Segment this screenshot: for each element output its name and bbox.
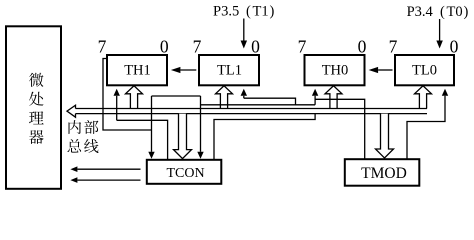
svg-text:7: 7 (298, 37, 307, 57)
arrow TCON to CPU upper (70, 166, 140, 172)
arrow bus to TCON (hollow) (174, 114, 192, 159)
arrow bus to TL1 (hollow) (216, 86, 233, 109)
block TMOD (345, 159, 420, 186)
label 内部总线 (68, 120, 99, 153)
label 0 TH0 (358, 37, 367, 57)
arrow TF1 into TCON (148, 96, 154, 159)
label fullwidth (T0) (440, 4, 469, 20)
block TCON (147, 160, 222, 184)
label 7 TH1 (98, 37, 107, 57)
arrow bus to TH0 (hollow) (325, 86, 342, 109)
svg-text:TMOD: TMOD (361, 165, 407, 182)
label 微处理器 (vertical) (29, 73, 44, 144)
wire TCON left feed (117, 120, 168, 160)
wire internal bus 内部总线 (hollow arrow to CPU) (67, 105, 427, 117)
block TL0 (395, 55, 454, 85)
svg-text:P3.5: P3.5 (213, 4, 239, 20)
arrow control to TH1 (114, 89, 120, 121)
svg-text:0: 0 (358, 37, 367, 57)
svg-text:): ) (270, 4, 275, 20)
svg-text:7: 7 (98, 37, 107, 57)
svg-text:7: 7 (193, 37, 202, 57)
arrow bus to TH1 (hollow) (126, 86, 143, 109)
svg-text:TL0: TL0 (412, 62, 437, 78)
label 7 TL1 (193, 37, 202, 57)
label 0 TH1 (160, 37, 169, 57)
wire control line step (152, 95, 201, 97)
label TCON (166, 166, 204, 181)
arrow control to TH0 (312, 89, 318, 105)
label 0 TL1 (251, 37, 260, 57)
label P3.4 (T0) (407, 4, 434, 20)
wire TF1 line from TH1 (103, 59, 152, 131)
svg-text:0: 0 (251, 37, 260, 57)
svg-text:T1: T1 (253, 4, 269, 20)
svg-text:TH0: TH0 (322, 62, 349, 78)
svg-text:): ) (464, 4, 469, 20)
label TL1 (217, 62, 242, 78)
wire TCON right feed (214, 114, 315, 160)
svg-text:0: 0 (160, 37, 169, 57)
label TH1 (124, 62, 151, 78)
wire control line right (201, 104, 316, 106)
arrow control to TL1 (241, 89, 247, 98)
arrow TL1 to TH1 (171, 67, 196, 73)
svg-text:T0: T0 (447, 4, 463, 20)
label fullwidth (T1) (246, 4, 275, 20)
svg-text:P3.4: P3.4 (407, 4, 434, 20)
label 0 TL0 (450, 37, 459, 57)
svg-text:TH1: TH1 (124, 62, 151, 78)
arrow bus to TMOD (hollow) (376, 114, 394, 158)
arrow bus to TL0 (hollow) (415, 86, 432, 109)
arrow P3.4 input to TL0 (436, 19, 443, 49)
label 7 TH0 (298, 37, 307, 57)
svg-text:TL1: TL1 (217, 62, 242, 78)
svg-text:7: 7 (389, 37, 398, 57)
arrow TMOD to TL0 (407, 89, 448, 159)
label P3.5 (T1) (213, 4, 239, 20)
arrow P3.5 input to TL1 (241, 19, 248, 49)
label 7 TL0 (389, 37, 398, 57)
arrow TL0 to TH0 (369, 67, 393, 73)
arrow line to TCON b (197, 96, 203, 159)
block TH0 (305, 55, 365, 85)
block TH1 (107, 55, 167, 85)
svg-text:TCON: TCON (166, 166, 204, 181)
block TL1 (199, 55, 259, 85)
wire TMOD control line (315, 99, 365, 159)
block CPU 微处理器 (6, 26, 61, 189)
svg-text:(: ( (440, 4, 445, 20)
svg-text:0: 0 (450, 37, 459, 57)
wire control link TL1 (244, 98, 296, 105)
label TH0 (322, 62, 349, 78)
label TMOD (361, 165, 407, 182)
label TL0 (412, 62, 437, 78)
arrow TCON to CPU lower (70, 177, 140, 183)
svg-text:(: ( (246, 4, 251, 20)
